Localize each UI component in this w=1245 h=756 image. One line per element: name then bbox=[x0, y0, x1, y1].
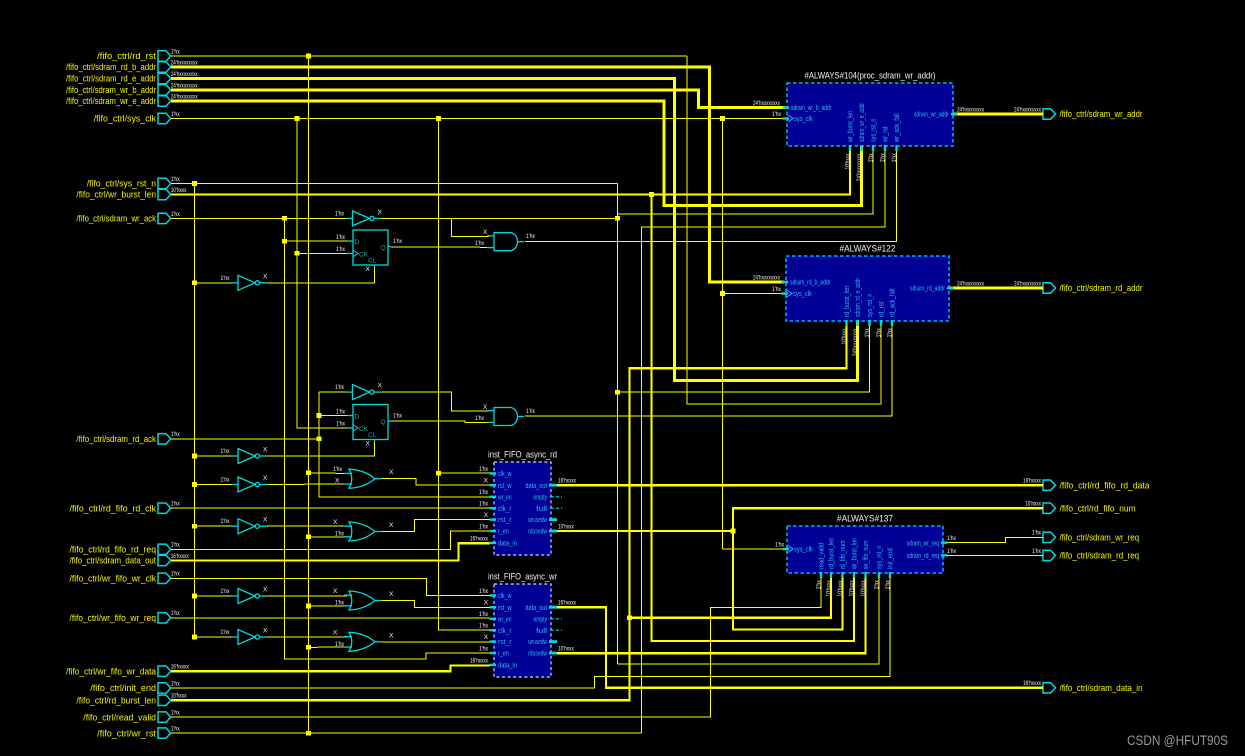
svg-text:X: X bbox=[389, 522, 394, 529]
svg-text:rst_w: rst_w bbox=[498, 605, 512, 612]
svg-text:/fifo_ctrl/wr_fifo_wr_clk: /fifo_ctrl/wr_fifo_wr_clk bbox=[70, 574, 157, 584]
svg-text:inst_FIFO_async_wr: inst_FIFO_async_wr bbox=[488, 572, 557, 583]
svg-text:clk_w: clk_w bbox=[498, 593, 512, 600]
svg-text:1'hx: 1'hx bbox=[393, 238, 403, 245]
svg-text:/fifo_ctrl/sdram_data_in: /fifo_ctrl/sdram_data_in bbox=[1060, 683, 1143, 693]
wire inv C / DFF2 feed vertical (sdram_rd_ack) bbox=[319, 392, 490, 497]
wire junction 8 bbox=[615, 216, 620, 221]
wire rd_fifo_rd_req bbox=[171, 531, 490, 549]
inverter E bbox=[221, 475, 269, 492]
wire FIFO_rd rdusedw bus bbox=[556, 530, 733, 532]
svg-text:10'hxxx: 10'hxxx bbox=[849, 580, 856, 597]
input port /fifo_ctrl/sdram_wr_b_addr bbox=[66, 82, 198, 95]
svg-text:1'hx: 1'hx bbox=[526, 233, 536, 240]
svg-text:/fifo_ctrl/init_end: /fifo_ctrl/init_end bbox=[90, 683, 156, 693]
svg-text:X: X bbox=[484, 512, 489, 519]
svg-text:1'hx: 1'hx bbox=[874, 580, 881, 590]
wire to DFF1 D bbox=[285, 240, 351, 242]
wire junction 16 bbox=[192, 454, 197, 459]
svg-text:16'hxxxx: 16'hxxxx bbox=[470, 535, 488, 542]
svg-text:X: X bbox=[263, 628, 268, 635]
wire junction 14 bbox=[317, 413, 322, 418]
svg-text:X: X bbox=[389, 469, 394, 476]
wire junction 24 bbox=[306, 604, 311, 609]
inverter F bbox=[221, 517, 269, 534]
wire to OR2 input bbox=[309, 536, 348, 538]
wire DFF2 Q to AND2 bbox=[391, 421, 489, 422]
wire junction 5 bbox=[192, 181, 197, 186]
svg-text:read_valid: read_valid bbox=[819, 543, 826, 569]
wire sys_rst_n main vertical bbox=[617, 184, 619, 665]
wire sdram_wr_addr to port bbox=[953, 112, 1043, 115]
wire to DFF2 D bbox=[319, 415, 350, 417]
svg-text:/fifo_ctrl/rd_fifo_num: /fifo_ctrl/rd_fifo_num bbox=[1060, 503, 1136, 513]
svg-text:inst_FIFO_async_rd: inst_FIFO_async_rd bbox=[488, 450, 557, 461]
svg-text:1'hx: 1'hx bbox=[333, 466, 343, 473]
svg-text:24'hxxxxxxxx: 24'hxxxxxxxx bbox=[171, 93, 198, 100]
svg-text:/fifo_ctrl/sdram_wr_ack: /fifo_ctrl/sdram_wr_ack bbox=[76, 214, 156, 224]
input port /fifo_ctrl/sdram_rd_b_addr bbox=[66, 59, 198, 72]
wire junction 19 bbox=[192, 482, 197, 487]
wire sdram_rd_req to port bbox=[943, 554, 1043, 556]
svg-text:/fifo_ctrl/sys_clk: /fifo_ctrl/sys_clk bbox=[94, 114, 157, 124]
d-flip-flop DFF2 bbox=[336, 405, 403, 448]
wire sys_clk to ALWAYS#122 bbox=[723, 293, 785, 295]
wire junction 28 bbox=[306, 731, 311, 736]
input port /fifo_ctrl/rd_fifo_rd_req bbox=[70, 542, 181, 555]
svg-text:1'hx: 1'hx bbox=[772, 111, 782, 118]
wire rd_fifo_rd_clk to FIFO_rd clk_r bbox=[171, 507, 490, 509]
wire OR2 out to FIFO_rd rst_r bbox=[382, 520, 490, 532]
svg-text:wr_rst: wr_rst bbox=[883, 126, 890, 142]
svg-text:24'hxxxxxxxx: 24'hxxxxxxxx bbox=[753, 100, 780, 107]
wire to OR4 input bbox=[309, 646, 348, 648]
svg-text:rd_burst_len: rd_burst_len bbox=[844, 286, 851, 317]
wire junction 22 bbox=[306, 535, 311, 540]
svg-text:1'hx: 1'hx bbox=[171, 542, 181, 549]
wire junction 6 bbox=[649, 192, 654, 197]
svg-text:10'hxxx: 10'hxxx bbox=[860, 580, 867, 597]
wire junction 12 bbox=[720, 291, 725, 296]
svg-text:1'hx: 1'hx bbox=[171, 48, 181, 55]
wire sdram_wr_ack trunk bbox=[171, 217, 348, 219]
wire junction 4 bbox=[720, 116, 725, 121]
svg-text:1'hx: 1'hx bbox=[336, 408, 346, 415]
svg-text:/fifo_ctrl/sdram_rd_addr: /fifo_ctrl/sdram_rd_addr bbox=[1060, 283, 1143, 293]
svg-text:X: X bbox=[335, 478, 340, 485]
svg-text:/fifo_ctrl/rd_burst_len: /fifo_ctrl/rd_burst_len bbox=[76, 696, 156, 706]
wire junction 20 bbox=[192, 524, 197, 529]
svg-text:1'hx: 1'hx bbox=[393, 413, 403, 420]
input port /fifo_ctrl/wr_rst bbox=[97, 726, 180, 739]
svg-text:/fifo_ctrl/sdram_wr_addr: /fifo_ctrl/sdram_wr_addr bbox=[1060, 109, 1143, 119]
inverter G bbox=[221, 587, 269, 604]
svg-text:sdram_wr_b_addr: sdram_wr_b_addr bbox=[791, 105, 832, 112]
svg-text:1'hx: 1'hx bbox=[526, 408, 536, 415]
output port /fifo_ctrl/sdram_rd_addr bbox=[1014, 280, 1143, 293]
svg-text:rd_ack_fall: rd_ack_fall bbox=[890, 288, 897, 317]
svg-text:sdram_rd_req: sdram_rd_req bbox=[907, 553, 939, 560]
wire wr_burst_len bus bbox=[171, 146, 850, 195]
svg-text:X: X bbox=[333, 519, 338, 526]
wire rd_fifo_num to port bbox=[733, 508, 1043, 531]
output port /fifo_ctrl/rd_fifo_rd_data bbox=[1023, 478, 1150, 491]
fifo block inst_FIFO_async_wr bbox=[470, 572, 562, 678]
svg-text:X: X bbox=[366, 266, 371, 273]
svg-text:24'hxxxxxxxx: 24'hxxxxxxxx bbox=[753, 274, 780, 281]
wire sys_clk to DFF clocks bbox=[297, 119, 350, 428]
svg-text:/fifo_ctrl/read_valid: /fifo_ctrl/read_valid bbox=[83, 712, 156, 722]
svg-text:24'hxxxxxxxx: 24'hxxxxxxxx bbox=[957, 280, 984, 287]
svg-text:/fifo_ctrl/sdram_data_out: /fifo_ctrl/sdram_data_out bbox=[70, 556, 157, 566]
wire inverter A out bbox=[377, 217, 618, 219]
output port /fifo_ctrl/sdram_rd_req bbox=[1032, 548, 1139, 561]
wire AND1 out to ALWAYS#104 wr_ack_fall bbox=[525, 146, 897, 242]
svg-text:1'hx: 1'hx bbox=[816, 580, 823, 590]
wire junction 23 bbox=[192, 594, 197, 599]
wire junction 18 bbox=[436, 471, 441, 476]
svg-text:CSDN @HFUT90S: CSDN @HFUT90S bbox=[1127, 733, 1228, 748]
svg-text:10'hxxx: 10'hxxx bbox=[837, 580, 844, 597]
svg-text:1'hx: 1'hx bbox=[479, 588, 489, 595]
wire DFF1 CL bbox=[262, 267, 375, 283]
svg-text:16'hxxxx: 16'hxxxx bbox=[1023, 680, 1041, 687]
svg-text:wrusedw: wrusedw bbox=[527, 517, 547, 524]
svg-text:sys_clk: sys_clk bbox=[794, 547, 813, 554]
wire wr_rst trunk bbox=[171, 732, 642, 734]
wire sdram_data_out bus to FIFO_rd data_in bbox=[171, 543, 490, 560]
input port /fifo_ctrl/wr_fifo_wr_clk bbox=[70, 571, 181, 584]
svg-text:rd_burst_len: rd_burst_len bbox=[829, 538, 836, 569]
svg-text:r_en: r_en bbox=[498, 651, 509, 658]
svg-text:1'hx: 1'hx bbox=[864, 328, 871, 338]
svg-text:data_out: data_out bbox=[525, 605, 547, 612]
wire sdram_rd_addr to port bbox=[949, 286, 1043, 289]
wire wr_burst_len to ALWAYS#137 bbox=[652, 195, 855, 642]
inverter B bbox=[221, 273, 269, 290]
svg-text:wrusedw: wrusedw bbox=[527, 639, 547, 646]
svg-text:/fifo_ctrl/sys_rst_n: /fifo_ctrl/sys_rst_n bbox=[87, 179, 156, 189]
svg-text:X: X bbox=[483, 404, 488, 411]
wire sdram_wr_req to port bbox=[943, 537, 1043, 542]
wire sys_clk to DFF1 CK bbox=[297, 252, 350, 254]
svg-text:sys_clk: sys_clk bbox=[794, 116, 813, 123]
svg-text:1'hx: 1'hx bbox=[868, 153, 875, 163]
svg-text:full: full bbox=[536, 628, 547, 635]
wire sys_rst_n inverter feed vertical bbox=[194, 184, 196, 638]
input port /fifo_ctrl/sdram_data_out bbox=[70, 553, 190, 566]
svg-text:#ALWAYS#104(proc_sdram_wr_addr: #ALWAYS#104(proc_sdram_wr_addr) bbox=[805, 71, 936, 82]
wire junction 10 bbox=[295, 251, 300, 256]
svg-text:r_en: r_en bbox=[498, 529, 509, 536]
wire junction 15 bbox=[317, 437, 322, 442]
wire FIFO_wr rdusedw to ALWAYS#137 wr_fifo_num bbox=[556, 573, 866, 653]
svg-text:X: X bbox=[263, 587, 268, 594]
inverter H bbox=[221, 628, 269, 645]
svg-text:10'hxxx: 10'hxxx bbox=[1025, 501, 1041, 508]
wire sys_rst_n to ALWAYS#137 bbox=[618, 573, 880, 664]
svg-text:clk_r: clk_r bbox=[498, 506, 512, 513]
wire sys_rst_n to ALWAYS#104 bbox=[618, 146, 874, 214]
svg-text:1'hx: 1'hx bbox=[336, 246, 346, 253]
svg-text:sys_rst_n: sys_rst_n bbox=[871, 119, 878, 142]
svg-text:16'hxxxx: 16'hxxxx bbox=[171, 553, 189, 560]
wire sdram_wr_b_addr bus bbox=[171, 90, 785, 108]
svg-text:sdram_rd_b_addr: sdram_rd_b_addr bbox=[790, 280, 831, 287]
input port /fifo_ctrl/wr_fifo_wr_req bbox=[70, 610, 181, 623]
svg-text:X: X bbox=[263, 273, 268, 280]
or-gate OR3 bbox=[333, 588, 394, 610]
svg-text:16'hxxxx: 16'hxxxx bbox=[558, 600, 576, 607]
svg-text:1'hx: 1'hx bbox=[171, 680, 181, 687]
input port /fifo_ctrl/sdram_rd_e_addr bbox=[66, 71, 198, 84]
wire sys_clk to FIFO clocks bbox=[439, 119, 491, 630]
wire init_end bbox=[171, 573, 890, 688]
wire junction 26 bbox=[192, 635, 197, 640]
svg-text:1'hx: 1'hx bbox=[171, 431, 181, 438]
wire sys_clk to FIFO_rd clk_w bbox=[439, 472, 491, 474]
svg-text:sys_clk: sys_clk bbox=[793, 291, 812, 298]
svg-text:CL: CL bbox=[368, 258, 376, 265]
svg-text:1'hx: 1'hx bbox=[885, 580, 892, 590]
svg-text:1'hx: 1'hx bbox=[1032, 530, 1042, 537]
wire rd_rst trunk bbox=[171, 55, 687, 57]
wire DFF1 Q to AND1 bbox=[391, 246, 489, 249]
svg-text:1'hx: 1'hx bbox=[171, 111, 181, 118]
wire to inverter C bbox=[319, 391, 350, 393]
or-gate OR4 bbox=[333, 629, 394, 651]
input port /fifo_ctrl/sys_clk bbox=[94, 111, 181, 124]
wire junction 2 bbox=[295, 116, 300, 121]
or-gate OR2 bbox=[333, 519, 394, 541]
wire DFF2 CL bbox=[262, 441, 375, 456]
svg-text:sdram_wr_e_addr: sdram_wr_e_addr bbox=[859, 103, 866, 142]
svg-text:10'hxxx: 10'hxxx bbox=[558, 646, 574, 653]
svg-text:/fifo_ctrl/wr_fifo_wr_data: /fifo_ctrl/wr_fifo_wr_data bbox=[66, 666, 156, 676]
always block #ALWAYS#137 bbox=[783, 514, 948, 597]
wire sdram_rd_b_addr bus bbox=[171, 67, 784, 282]
svg-text:X: X bbox=[263, 447, 268, 454]
wire junction 9 bbox=[282, 239, 287, 244]
svg-text:X: X bbox=[333, 629, 338, 636]
svg-text:10'hxxx: 10'hxxx bbox=[558, 523, 574, 530]
svg-text:24'hxxxxxxxx: 24'hxxxxxxxx bbox=[1014, 106, 1041, 113]
wire rd_rst distribution vertical bbox=[308, 56, 310, 733]
wire to OR3 input bbox=[309, 605, 348, 607]
wire OR4 out to FIFO_wr rst_r bbox=[382, 641, 490, 643]
wire to inverter G bbox=[195, 595, 235, 597]
svg-text:10'hxxx: 10'hxxx bbox=[826, 580, 833, 597]
svg-text:D: D bbox=[355, 239, 360, 246]
wire junction 7 bbox=[282, 216, 287, 221]
wire rd_rst vertical to ALWAYS#122 bbox=[687, 56, 881, 404]
svg-text:1'hx: 1'hx bbox=[479, 523, 489, 530]
wire sdram_rd_e_addr bus bbox=[171, 79, 858, 381]
svg-text:1'hx: 1'hx bbox=[171, 610, 181, 617]
wire junction 17 bbox=[306, 471, 311, 476]
svg-text:clk_w: clk_w bbox=[498, 471, 512, 478]
wire junction 27 bbox=[306, 645, 311, 650]
svg-text:1'hx: 1'hx bbox=[336, 234, 346, 241]
wire sdram_rd_ack trunk bbox=[171, 438, 319, 440]
output port /fifo_ctrl/sdram_wr_req bbox=[1032, 530, 1139, 543]
svg-text:clk_r: clk_r bbox=[498, 628, 512, 635]
wire rd_burst_len bus bbox=[171, 321, 847, 700]
svg-text:1'hx: 1'hx bbox=[171, 501, 181, 508]
svg-text:1'hx: 1'hx bbox=[171, 571, 181, 578]
svg-text:full: full bbox=[536, 506, 547, 513]
svg-text:/fifo_ctrl/rd_fifo_rd_req: /fifo_ctrl/rd_fifo_rd_req bbox=[70, 545, 157, 555]
inverter C (sdram_rd_ack) bbox=[335, 383, 383, 400]
input port /fifo_ctrl/sdram_rd_ack bbox=[76, 431, 180, 444]
svg-text:/fifo_ctrl/rd_fifo_rd_data: /fifo_ctrl/rd_fifo_rd_data bbox=[1060, 480, 1150, 490]
svg-text:/fifo_ctrl/rd_fifo_rd_clk: /fifo_ctrl/rd_fifo_rd_clk bbox=[70, 503, 157, 513]
wire rd_burst_len to ALWAYS#137 bbox=[630, 573, 832, 618]
wire junction 1 bbox=[306, 54, 311, 59]
svg-text:wr_ack_fall: wr_ack_fall bbox=[894, 113, 901, 143]
svg-text:/fifo_ctrl/sdram_rd_req: /fifo_ctrl/sdram_rd_req bbox=[1060, 551, 1140, 561]
input port /fifo_ctrl/rd_rst bbox=[97, 48, 180, 61]
svg-text:rst_r: rst_r bbox=[498, 517, 512, 524]
svg-text:rst_r: rst_r bbox=[498, 639, 512, 646]
svg-text:1'hx: 1'hx bbox=[221, 448, 231, 455]
svg-text:rdusedw: rdusedw bbox=[528, 651, 548, 658]
svg-text:1'hx: 1'hx bbox=[221, 518, 231, 525]
wire to inverter H bbox=[195, 636, 235, 638]
svg-text:sdram_rd_e_addr: sdram_rd_e_addr bbox=[855, 278, 862, 317]
wire wr_fifo_wr_data bus to FIFO_wr data_in bbox=[171, 666, 490, 672]
output port /fifo_ctrl/sdram_data_in bbox=[1023, 680, 1143, 693]
wire inverter F out to OR2 bbox=[262, 525, 347, 527]
svg-text:Q: Q bbox=[380, 245, 385, 252]
svg-text:wr_burst_len: wr_burst_len bbox=[848, 111, 855, 143]
svg-text:wr_en: wr_en bbox=[497, 494, 511, 501]
svg-text:1'hx: 1'hx bbox=[335, 531, 345, 538]
svg-text:/fifo_ctrl/wr_fifo_wr_req: /fifo_ctrl/wr_fifo_wr_req bbox=[70, 613, 157, 623]
svg-text:empty: empty bbox=[534, 616, 548, 623]
output port /fifo_ctrl/rd_fifo_num bbox=[1025, 501, 1135, 514]
svg-text:24'hxxxxxxxx: 24'hxxxxxxxx bbox=[856, 153, 863, 181]
always block #ALWAYS#104(proc_sdram_wr_addr) bbox=[783, 71, 958, 182]
svg-text:/fifo_ctrl/sdram_rd_ack: /fifo_ctrl/sdram_rd_ack bbox=[76, 434, 156, 444]
svg-text:10'hxxx: 10'hxxx bbox=[171, 693, 187, 700]
wire to inverter F bbox=[195, 525, 235, 527]
svg-text:/fifo_ctrl/rd_rst: /fifo_ctrl/rd_rst bbox=[97, 51, 156, 61]
svg-text:24'hxxxxxxxx: 24'hxxxxxxxx bbox=[1014, 280, 1041, 287]
svg-text:16'hxxxx: 16'hxxxx bbox=[1023, 478, 1041, 485]
svg-text:1'hx: 1'hx bbox=[772, 286, 782, 293]
svg-text:1'hx: 1'hx bbox=[479, 623, 489, 630]
svg-text:sys_rst_n: sys_rst_n bbox=[877, 546, 884, 569]
svg-text:X: X bbox=[263, 475, 268, 482]
svg-text:sdram_wr_req: sdram_wr_req bbox=[907, 540, 939, 547]
svg-text:rd_rst: rd_rst bbox=[879, 301, 886, 317]
svg-text:/fifo_ctrl/sdram_wr_e_addr: /fifo_ctrl/sdram_wr_e_addr bbox=[66, 96, 156, 106]
svg-text:1'hx: 1'hx bbox=[171, 211, 181, 218]
svg-text:1'hx: 1'hx bbox=[775, 541, 785, 548]
inverter D bbox=[221, 447, 269, 464]
svg-text:sdram_wr_addr: sdram_wr_addr bbox=[914, 112, 950, 119]
wire inverter H out to OR4 bbox=[262, 636, 347, 638]
wire FIFO_wr data_out bus to sdram_data_in port bbox=[556, 607, 1043, 688]
wire junction 25 bbox=[627, 616, 632, 621]
input port /fifo_ctrl/wr_fifo_wr_data bbox=[66, 664, 189, 677]
svg-text:D: D bbox=[355, 414, 360, 421]
svg-text:1'hx: 1'hx bbox=[335, 600, 345, 607]
input port /fifo_ctrl/wr_burst_len bbox=[76, 187, 187, 200]
wire junction 13 bbox=[615, 390, 620, 395]
svg-text:1'hx: 1'hx bbox=[336, 421, 346, 428]
svg-text:X: X bbox=[483, 229, 488, 236]
wire sys_clk to ALWAYS#137 bbox=[723, 548, 786, 550]
wire inverter C out to AND2 bbox=[377, 392, 490, 411]
svg-text:1'hx: 1'hx bbox=[876, 328, 883, 338]
svg-text:24'hxxxxxxxx: 24'hxxxxxxxx bbox=[171, 71, 198, 78]
svg-text:1'hx: 1'hx bbox=[221, 275, 231, 282]
wire sdram_wr_ack vertical bbox=[285, 218, 491, 659]
svg-text:1'hx: 1'hx bbox=[335, 641, 345, 648]
svg-text:wr_en: wr_en bbox=[497, 616, 511, 623]
svg-text:X: X bbox=[378, 383, 383, 390]
wire wr_fifo_wr_clk to FIFO_wr clk_w bbox=[171, 578, 490, 595]
wire inverter A out to AND1 bbox=[452, 218, 490, 236]
svg-text:1'hx: 1'hx bbox=[947, 535, 957, 542]
svg-text:1'hx: 1'hx bbox=[880, 153, 887, 163]
svg-text:1'hx: 1'hx bbox=[475, 415, 485, 422]
wire to inverter D bbox=[195, 455, 235, 457]
wire wr_fifo_wr_req to FIFO_wr wr_en bbox=[171, 617, 490, 619]
svg-text:1'hx: 1'hx bbox=[335, 384, 345, 391]
svg-text:1'hx: 1'hx bbox=[891, 153, 898, 163]
svg-text:Q: Q bbox=[380, 419, 385, 426]
wire to OR1 input bbox=[309, 472, 348, 475]
svg-text:wr_burst_len: wr_burst_len bbox=[852, 538, 859, 570]
svg-text:24'hxxxxxxxx: 24'hxxxxxxxx bbox=[171, 59, 198, 66]
wire inverter G out to OR3 bbox=[262, 595, 347, 597]
svg-text:/fifo_ctrl/wr_burst_len: /fifo_ctrl/wr_burst_len bbox=[76, 190, 156, 200]
wire AND2 out to ALWAYS#122 rd_ack_fall bbox=[525, 321, 892, 416]
wire sys_clk right vertical bbox=[722, 119, 724, 550]
svg-text:data_in: data_in bbox=[498, 663, 517, 670]
svg-text:/fifo_ctrl/sdram_rd_b_addr: /fifo_ctrl/sdram_rd_b_addr bbox=[66, 62, 156, 72]
d-flip-flop DFF1 bbox=[336, 230, 403, 273]
input port /fifo_ctrl/sdram_wr_e_addr bbox=[66, 93, 198, 106]
input port /fifo_ctrl/init_end bbox=[90, 680, 180, 693]
wire to inverter B bbox=[195, 282, 235, 284]
wire sys_clk trunk bbox=[171, 118, 785, 120]
svg-text:16'hxxxx: 16'hxxxx bbox=[470, 657, 488, 664]
svg-text:sys_rst_n: sys_rst_n bbox=[867, 294, 874, 317]
svg-text:1'hx: 1'hx bbox=[479, 501, 489, 508]
svg-text:CL: CL bbox=[368, 432, 376, 439]
svg-text:rdusedw: rdusedw bbox=[528, 529, 548, 536]
svg-text:10'hxxx: 10'hxxx bbox=[841, 328, 848, 345]
svg-text:1'hx: 1'hx bbox=[221, 629, 231, 636]
svg-text:1'hx: 1'hx bbox=[947, 548, 957, 555]
svg-text:sdram_rd_addr: sdram_rd_addr bbox=[910, 286, 946, 293]
wire sdram_wr_e_addr bus bbox=[171, 101, 862, 206]
svg-text:1'hx: 1'hx bbox=[1032, 548, 1042, 555]
svg-text:10'hxxx: 10'hxxx bbox=[844, 153, 851, 170]
svg-text:16'hxxxx: 16'hxxxx bbox=[171, 664, 189, 671]
svg-text:24'hxxxxxxxx: 24'hxxxxxxxx bbox=[852, 328, 859, 356]
output port /fifo_ctrl/sdram_wr_addr bbox=[1014, 106, 1143, 119]
svg-text:16'hxxxx: 16'hxxxx bbox=[558, 478, 576, 485]
svg-text:1'hx: 1'hx bbox=[479, 645, 489, 652]
wire junction 3 bbox=[436, 116, 441, 121]
svg-text:1'hx: 1'hx bbox=[221, 477, 231, 484]
svg-text:X: X bbox=[263, 517, 268, 524]
